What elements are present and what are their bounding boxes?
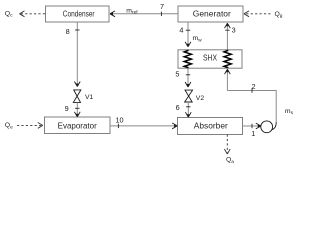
arrow down above V1 xyxy=(74,82,80,87)
node 3 tick xyxy=(225,29,229,31)
svg-text:V1: V1 xyxy=(85,94,94,101)
node 2 tick xyxy=(251,88,253,92)
evaporator box xyxy=(45,117,111,134)
arrow into pump xyxy=(256,123,261,129)
svg-text:V2: V2 xyxy=(196,95,205,102)
valve V2 xyxy=(185,90,193,102)
svg-text:6: 6 xyxy=(176,103,180,112)
valve V1 xyxy=(73,90,81,103)
wire up into SHX bottom (right) xyxy=(226,71,228,91)
absorber box xyxy=(178,118,243,135)
wire evaporator to absorber xyxy=(110,125,176,127)
svg-text:Evaporator: Evaporator xyxy=(58,120,97,130)
arrow down above V2 xyxy=(185,82,191,87)
Qg dashed arrow xyxy=(246,13,271,15)
node 1 tick xyxy=(251,124,253,128)
node 8 tick xyxy=(75,29,79,31)
arrow into absorber top xyxy=(185,112,191,117)
svg-text:5: 5 xyxy=(175,69,179,78)
svg-text:3: 3 xyxy=(232,26,236,35)
arrow into condenser xyxy=(110,11,115,17)
wire V2 to absorber xyxy=(187,102,189,116)
svg-text:8: 8 xyxy=(66,27,70,36)
wire generator to condenser xyxy=(111,13,178,15)
node 6 tick xyxy=(186,106,190,108)
arrow down above SHX left xyxy=(185,42,191,47)
Qa dashed arrow below absorber xyxy=(226,135,228,153)
wire SHX up to generator (right, strong solution) xyxy=(226,25,228,50)
svg-text:Generator: Generator xyxy=(193,9,231,19)
arrow up into SHX bottom xyxy=(225,69,231,74)
svg-text:SHX: SHX xyxy=(203,52,217,62)
SHX box xyxy=(178,50,242,68)
condenser box xyxy=(46,6,110,22)
SHX right coil xyxy=(224,50,231,68)
wire absorber to pump xyxy=(243,125,260,127)
Qe dashed arrow xyxy=(17,124,41,126)
node 10 tick xyxy=(117,124,119,128)
wire SHX down to V2 (left) xyxy=(187,68,189,86)
generator box xyxy=(178,6,243,22)
svg-text:4: 4 xyxy=(179,26,183,35)
svg-text:Condenser: Condenser xyxy=(63,9,95,19)
pump P1 xyxy=(261,121,276,133)
node 4 tick xyxy=(186,29,190,31)
svg-text:9: 9 xyxy=(65,104,69,113)
node 5 tick xyxy=(186,74,190,76)
node 9 tick xyxy=(75,107,79,109)
wire pump up xyxy=(275,91,277,123)
svg-text:7: 7 xyxy=(160,2,164,11)
wire pump top across to SHX xyxy=(227,90,276,92)
arrow into absorber xyxy=(172,123,177,129)
wire condenser down to V1 xyxy=(76,22,78,86)
arrow into evaporator top xyxy=(74,112,80,117)
SHX left coil xyxy=(184,50,191,68)
svg-text:1: 1 xyxy=(251,129,255,138)
node 7 tick xyxy=(160,12,162,16)
wire generator down to SHX (left, weak solution) xyxy=(187,22,189,46)
arrow up into generator xyxy=(225,23,231,28)
svg-text:Absorber: Absorber xyxy=(194,121,228,131)
svg-text:10: 10 xyxy=(116,116,124,125)
wire V1 to evaporator xyxy=(76,102,78,115)
Qc dashed arrow xyxy=(21,13,45,15)
svg-text:2: 2 xyxy=(252,82,256,91)
